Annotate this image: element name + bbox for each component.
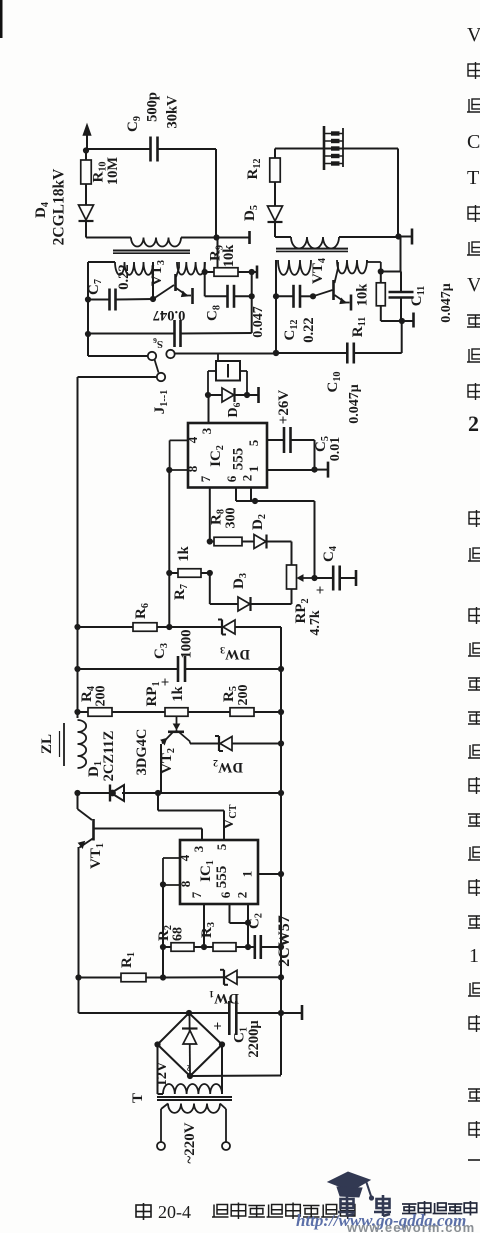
resistor R1 [79,977,122,979]
svg-text:0.047μ: 0.047μ [347,384,362,424]
node: bridge bottom vertex [187,1073,193,1079]
svg-text:555: 555 [231,448,247,471]
diode D4 [79,205,94,220]
IC2 555 box [188,423,267,488]
svg-text:www.eeworm.com: www.eeworm.com [346,1220,475,1233]
svg-text:0.22: 0.22 [301,317,317,342]
node: D1 row left [74,790,80,796]
winding lead to R9 node [204,262,206,272]
svg-text:+: + [313,586,329,595]
node: relay left / pin3 [205,392,211,398]
svg-text:~220V: ~220V [182,1122,198,1163]
bridge internal diode [189,1016,192,1073]
switch S throw contact [157,373,165,381]
Tr2 base winding [278,260,311,275]
svg-text:10M: 10M [105,157,121,186]
VT1 base wire to IC1 pin3 [94,828,203,830]
capacitor C1 2200u (electrolytic) [189,1012,229,1014]
svg-text:3: 3 [199,427,214,434]
svg-text:10k: 10k [355,283,371,307]
svg-text:0.22: 0.22 [116,264,132,289]
VT2 emitter rail down [160,744,162,793]
node: R2 left [160,944,166,950]
svg-text:4: 4 [177,854,192,861]
node: bridge left vertex [154,1041,160,1047]
node: right HV loop bottom-right [395,233,401,239]
svg-text:~: ~ [181,1064,195,1071]
terminal bar R9 right [252,271,256,273]
transistor VT1 (pass) [78,809,93,820]
svg-text:1k: 1k [170,685,186,701]
svg-text:3: 3 [191,845,206,852]
capacitor C4 (electrolytic) [315,577,334,579]
diode D2 [254,535,266,549]
node: rail at 0.047 row [85,331,91,337]
watermark logo insect characters [338,1195,391,1216]
svg-text:+26V: +26V [276,390,292,425]
terminal bar VT4 emitter [350,295,353,311]
resistor R4 200 [78,711,89,713]
node: bridge right vertex [219,1041,225,1047]
node: DW2 right [278,740,284,746]
resistor R7 1k [169,572,178,574]
svg-text:2200μ: 2200μ [246,1020,262,1058]
wire right side of right HV loop [397,149,399,237]
HV transformer Tr2 secondary winding [291,237,339,249]
svg-text:12V: 12V [154,1061,170,1087]
svg-text:V: V [467,24,480,46]
node: R4 row left [74,709,80,715]
top wire of right HV loop [275,148,398,150]
svg-text:4.7k: 4.7k [308,610,323,636]
svg-text:200: 200 [236,685,251,706]
IC2 pin5 wire [267,439,284,441]
bias rail down from pin8 [168,470,170,573]
Tr1 core lines [113,250,190,252]
node: C11 bottom [399,318,405,324]
node: DW1 right [278,974,284,980]
wire D5 to bottom [274,222,276,237]
switch S lever [155,360,159,373]
bottom wire of right HV loop [275,236,291,238]
svg-text:300: 300 [224,508,239,529]
Tr1 collector winding [177,262,205,275]
svg-text:7: 7 [189,891,204,898]
IC1 pin6 wire [247,904,249,923]
svg-text:C: C [467,131,480,153]
node: pin1/C5 ground [311,467,317,473]
left oscillator rail [87,262,89,356]
terminal bar C11 bottom [402,320,413,322]
node: R2/R3 junction pin7 [201,944,207,950]
node: C7 left [85,296,91,302]
capacitor C10 0.047u [276,352,347,354]
bridge rectifier diamond [158,1013,190,1045]
svg-text:1000: 1000 [179,630,195,659]
resistor R8 300 [210,541,214,543]
node: C2 right on ground rail [278,944,284,950]
capacitor C7 0.22 [88,299,109,301]
svg-text:8: 8 [178,880,193,887]
resistor R11 10k [376,283,385,306]
zener diode DW3 [169,626,222,628]
terminal bar +26V [247,394,258,396]
terminal bar C4 [340,577,355,579]
svg-text:T: T [130,1093,146,1103]
VCT wire to IC1 pin5 [157,793,159,811]
wire R11 bottom to C11 bottom node [381,320,402,322]
node: R11 top [378,268,384,274]
IC2 pin4 wire [170,439,188,441]
wire bridge bottom to ground rail [190,1075,281,1078]
diode D3 [210,603,238,605]
node: IC1 pin4/8 junction [160,881,166,887]
wire bridge right vertex down to secondary [221,1045,223,1095]
svg-text:1: 1 [246,466,261,473]
node: relay right [244,392,250,398]
node: R1 row left [75,974,81,980]
wire R1 to DW1 [163,976,224,978]
wire pin2/6 down to R3/C2 row [247,923,249,947]
IC1 pin2 wire [229,904,231,923]
node: bridge top vertex [186,1010,192,1016]
left rail (regulated supply) [77,377,79,718]
node: R5 row right [278,709,284,715]
transistor VT2 [176,730,178,732]
svg-text:ZL: ZL [39,734,55,754]
wire D2 to RP2 top [267,541,292,543]
resistor R12 [270,158,281,182]
diode D6 (relay) [208,394,222,396]
bias rail R7-R6 segment [168,573,170,627]
right oscillator rail [275,260,277,353]
node: C3 row right [278,666,284,672]
wire top-left to C9 [86,148,151,150]
wire from HV loop down to R9 [217,238,219,268]
svg-text:5: 5 [246,439,261,446]
scan edge mark top-left [0,0,3,38]
right margin text column [467,24,480,1160]
watermark download-site name text [402,1201,477,1216]
svg-text:500p: 500p [145,92,161,122]
watermark logo graduation cap [328,1172,374,1201]
wire C5 to ground column [291,439,315,441]
right ground rail [280,627,282,1075]
node: left HV loop bottom-right [213,234,219,240]
primary left lead [161,1104,168,1110]
wire R11 node right [381,271,401,273]
resistor R9 10k [205,271,214,273]
wire R9 right down to C8 right [251,272,253,296]
bottom wire of left HV loop [86,237,131,239]
svg-text:2: 2 [240,475,255,482]
label ZL underline [59,731,61,757]
node: top-left junction [83,147,89,153]
svg-text:2CGL18kV: 2CGL18kV [51,168,68,245]
svg-text:2: 2 [468,411,479,436]
svg-text:6: 6 [218,891,233,898]
RP1 wiper arrow [176,716,178,725]
ZL core line [63,723,65,766]
zener diode DW1 [225,970,237,984]
wire D3 to RP2 bottom [251,603,292,605]
node: R6 right on bias rail [166,624,172,630]
mains terminal left [157,1142,165,1150]
IC2 pin8 wire [170,469,188,471]
wire left rail to VT1 collector [77,793,79,809]
wire switch to +26V rail [175,353,276,355]
switch S contact left [148,352,156,360]
node: R1 right [160,974,166,980]
node: R7 right / pin7 [207,570,213,576]
diode D1 (zener-style bar left) [78,792,110,794]
potentiometer RP2 4.7k [287,565,297,589]
inductor ZL (choke in left rail) [78,720,87,768]
resistor R3 [204,946,213,948]
node: R7 left on bias rail [166,570,172,576]
VT1 emitter rail down [78,847,80,1013]
terminal bar (right HV return) [411,229,414,245]
wire R10 to D4 [85,184,87,205]
winding lead down to C7 node [152,262,154,299]
wire stub to terminal bar right [399,236,412,238]
node: C3 row left [74,666,80,672]
IC1 pin8 wire [163,884,180,886]
wire collector winding to R11 node [366,260,368,262]
relay left lead [208,370,216,372]
wire C10 right up to C11 node [401,321,403,353]
capacitor C3 1000 (electrolytic) [78,668,179,670]
wire pin2/6 to RP2 wiper column [255,500,315,502]
IC1 pin7 wire [203,904,205,947]
potentiometer RP1 1k [165,708,188,717]
wire bridge left vertex down to secondary [157,1045,159,1095]
zener diode DW2 [220,737,232,751]
figure caption: tu 20-4 dianzi baoxian zhuangzhi dianlu [136,1202,355,1222]
svg-text:10k: 10k [221,244,237,268]
wire R2 node down to R1 row [162,947,164,978]
node: VCT junction [155,790,161,796]
node: R6 row left [74,624,80,630]
node: R8 left [207,538,213,544]
svg-text:30kV: 30kV [165,95,181,129]
node: VT3 base / C7 [150,296,156,302]
wire switch throw to left rail down [78,376,158,378]
transistor VT3 [174,274,177,291]
DC+ wire R1-row rail to bridge top [79,1012,190,1014]
svg-text:T: T [467,167,479,189]
svg-text:2CW57: 2CW57 [276,915,293,967]
svg-text:5: 5 [214,843,229,850]
node: pin2/6 junction [252,498,258,504]
wire C9 to right corner [158,148,216,150]
node: C1 right on ground rail [278,1010,284,1016]
wire HV return down to R11 node [400,237,402,272]
relay right lead [240,370,247,372]
wire to R12 [274,149,276,159]
VT2 collector wire [189,742,191,744]
terminal bar IC2 ground [315,469,328,471]
wire D4 to bottom wire [85,221,87,238]
wire pin8 node down to R2 [162,885,164,947]
capacitor 0.047 (coupling) [88,333,174,335]
node: +26V rail at C12 rail [273,350,279,356]
T core lines [157,1096,232,1098]
node: C12 left on rail [273,293,279,299]
wire R9 node down to C8 [204,272,206,296]
node: R9 left [202,269,208,275]
svg-text:1: 1 [240,871,255,878]
resistor R2 68 [163,946,171,948]
resistor R10 [85,151,87,161]
svg-text:1: 1 [469,945,479,967]
terminal bar (left HV return) [248,231,251,244]
IC1 555 box [180,840,258,904]
primary right lead [220,1104,226,1110]
capacitor C8 [205,295,227,297]
wire right side down (left HV loop) [215,149,217,238]
switch S contact right [166,350,174,358]
node: RP2 wiper / C4 [311,575,317,581]
node: pin4/pin8 junction [166,467,172,473]
svg-text:6: 6 [224,475,239,482]
wire rail to feedback winding [88,261,115,263]
node: VT4 base [310,293,316,299]
HV output arrow (left block) [86,132,88,151]
svg-text:0.01: 0.01 [328,437,343,462]
svg-text:68: 68 [171,927,186,941]
ion emitter electrode (comb symbol) [323,126,326,170]
svg-text:+: + [211,1022,227,1031]
svg-text:1k: 1k [176,545,192,561]
resistor R6 [78,626,134,628]
IC2 pin1 wire [267,469,315,471]
node: C10 left on rail [273,350,279,356]
svg-text:0.047: 0.047 [153,307,186,323]
node: pin2/6 junction IC1 [245,920,251,926]
svg-text:20-4: 20-4 [158,1202,191,1222]
wire pin7 node down to D3 row [209,573,211,604]
capacitor C2 [248,946,255,948]
svg-text:200: 200 [94,686,109,707]
node: R9 right [249,269,255,275]
IC2 pin7 wire [209,488,211,542]
diode D5 [268,206,283,221]
Tr1 feedback winding [115,262,153,275]
wire R12 to D5 [274,182,276,206]
node: D1 row right on ground rail [278,790,284,796]
wire C1 to ground rail [237,1012,282,1014]
wire C8 right down to 0.047 row [251,296,253,333]
node: C8 right [249,293,255,299]
IC1 pin1 wire [258,873,281,875]
capacitor C12 0.22 [276,295,293,297]
svg-text:3DG4C: 3DG4C [134,729,150,776]
svg-text:V: V [467,274,480,296]
svg-text:0.047: 0.047 [251,306,266,338]
IC1 pin4 wire [163,857,180,859]
svg-text:0.047μ: 0.047μ [439,283,454,323]
terminal bar chassis ground [281,1012,301,1014]
Tr2 collector winding (right) [337,260,367,274]
svg-text:2: 2 [235,892,250,899]
svg-text:8: 8 [185,465,200,472]
wire relay node to IC2 pin3 [208,395,210,423]
svg-text:7: 7 [198,475,213,482]
resistor R5 200 [188,711,230,713]
svg-text:555: 555 [214,866,230,889]
node: IC1 pin1 on ground rail [278,871,284,877]
node: R3 right [245,944,251,950]
mains terminal right [222,1142,230,1150]
IC2 pin6 wire [235,488,237,502]
RP2 wiper arrow [304,577,315,579]
IC2 pin2 wire [250,488,252,502]
capacitor C5 0.01 [283,427,286,453]
relay coil J [217,354,219,362]
transformer T secondary winding [163,1084,222,1094]
svg-text:4: 4 [185,436,200,443]
wire left rail to switch [88,355,148,357]
terminal bar VT3 emitter [191,288,194,304]
wire DW1 to ground rail [237,976,281,978]
capacitor C11 (inline, horizontal plates) [400,272,402,293]
HV transformer Tr1 secondary winding [131,238,181,247]
wire stub to terminal bar [217,237,249,239]
capacitor C9 [149,137,152,162]
transformer T primary winding [168,1104,220,1113]
svg-text:2CZ11Z: 2CZ11Z [101,731,117,782]
transistor VT4 [332,280,335,300]
Tr2 core lines [276,248,348,250]
